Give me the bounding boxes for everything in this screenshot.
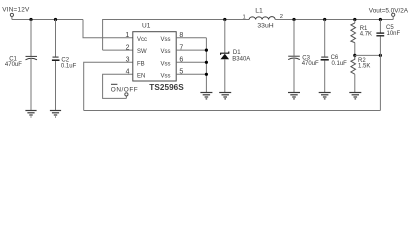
ground C2 — [50, 111, 61, 118]
svg-text:33uH: 33uH — [257, 23, 273, 30]
wire R1 bottom lead — [354, 43, 356, 56]
wire C1 top lead — [30, 20, 32, 57]
svg-text:Vss: Vss — [161, 61, 171, 67]
wire Vss pin 6 stub — [176, 61, 206, 63]
node junction C5 FB — [379, 54, 382, 57]
terminal Vout — [392, 13, 395, 16]
resistor R1 — [351, 23, 356, 43]
wire FB pin 3 — [84, 62, 133, 110]
op-amp U1 IC box — [133, 32, 176, 81]
svg-text:Vcc: Vcc — [137, 37, 147, 43]
node junction C6 — [323, 18, 326, 21]
wire C1 bottom lead — [30, 59, 32, 110]
node junction C5 top — [379, 18, 382, 21]
svg-text:3: 3 — [126, 57, 130, 64]
wire pin 2 stub — [103, 49, 133, 51]
svg-text:0.1uF: 0.1uF — [332, 61, 348, 67]
wire Vss bus — [205, 38, 207, 92]
ground C3 — [288, 93, 300, 99]
wire C2 top lead — [55, 20, 57, 57]
wire VIN rail — [12, 19, 83, 21]
capacitor C3 — [288, 56, 300, 59]
label ON overline — [111, 83, 117, 85]
wire Vss pin 7 stub — [176, 49, 206, 51]
svg-text:0.1uF: 0.1uF — [61, 63, 77, 69]
capacitor C2 — [52, 57, 60, 60]
capacitor C5 — [376, 33, 384, 36]
wire SW rail corner — [103, 20, 250, 51]
ground C1 — [25, 111, 36, 118]
wire D1 bottom lead — [224, 59, 226, 92]
svg-text:Vss: Vss — [161, 37, 171, 43]
svg-text:1.5K: 1.5K — [358, 64, 370, 70]
wire FB bottom rail — [84, 110, 381, 112]
node junction Vss pin 7 — [205, 49, 208, 52]
svg-text:B340A: B340A — [232, 56, 250, 62]
wire Vss pin 5 stub — [176, 73, 206, 75]
terminal VIN — [10, 13, 13, 16]
wire EN pin 4 — [103, 74, 133, 98]
capacitor C6 — [321, 57, 329, 60]
wire C5 top lead — [379, 20, 381, 33]
wire VIN stub — [11, 17, 13, 20]
wire Vout stub — [392, 17, 394, 20]
wire Vss pin 8 stub — [176, 37, 206, 39]
node junction D1 — [223, 18, 226, 21]
wire D1 top lead — [224, 20, 226, 54]
svg-text:Vout=5.0V/2A: Vout=5.0V/2A — [369, 7, 409, 14]
svg-text:1: 1 — [125, 32, 129, 39]
terminal ON/OFF — [125, 93, 128, 96]
svg-text:TS2596S: TS2596S — [149, 83, 184, 92]
svg-text:4.7K: 4.7K — [360, 32, 372, 38]
svg-text:ON/OFF: ON/OFF — [111, 86, 138, 93]
node junction C1 — [29, 18, 32, 21]
svg-text:2: 2 — [126, 44, 130, 51]
capacitor C1 — [26, 56, 38, 59]
wire C3 top lead — [293, 20, 295, 56]
node junction Vss pin 5 — [205, 73, 208, 76]
ground Vss — [200, 93, 212, 99]
ground C6 — [319, 93, 331, 99]
svg-text:470uF: 470uF — [5, 62, 22, 68]
svg-text:L1: L1 — [255, 7, 263, 14]
node junction FB divider — [353, 54, 356, 57]
svg-text:Vss: Vss — [161, 74, 171, 80]
wire C5 bottom lead down to bottom rail — [379, 36, 381, 110]
inductor L1 — [249, 17, 275, 20]
resistor R2 — [351, 55, 356, 74]
ground D1 — [219, 93, 231, 99]
svg-text:EN: EN — [137, 74, 145, 80]
wire C3 bottom lead — [293, 59, 295, 92]
svg-text:VIN=12V: VIN=12V — [2, 7, 30, 14]
wire C6 bottom lead — [324, 61, 326, 92]
wire FB node horizontal — [355, 54, 381, 56]
ground R2 — [349, 93, 361, 99]
diode D1 — [221, 52, 230, 60]
wire R2 bottom lead — [354, 74, 356, 92]
svg-text:U1: U1 — [142, 23, 151, 30]
wire ON/OFF stub — [125, 96, 127, 98]
svg-text:1: 1 — [243, 14, 246, 20]
wire C6 top lead — [324, 20, 326, 57]
svg-text:FB: FB — [137, 61, 145, 67]
node junction Vss pin 6 — [205, 61, 208, 64]
node junction C2 — [54, 18, 57, 21]
svg-text:4: 4 — [126, 69, 130, 76]
svg-text:SW: SW — [137, 49, 147, 55]
svg-text:10nF: 10nF — [387, 31, 401, 37]
wire Vout rail — [275, 19, 393, 21]
wire C2 bottom lead — [55, 61, 57, 110]
wire R1 top lead — [354, 20, 356, 24]
svg-text:D1: D1 — [233, 50, 241, 56]
node junction C3 — [292, 18, 295, 21]
node junction R1 — [353, 18, 356, 21]
svg-text:Vss: Vss — [161, 49, 171, 55]
svg-text:470uF: 470uF — [302, 61, 319, 67]
wire VIN drop to pin 1 — [83, 20, 133, 38]
